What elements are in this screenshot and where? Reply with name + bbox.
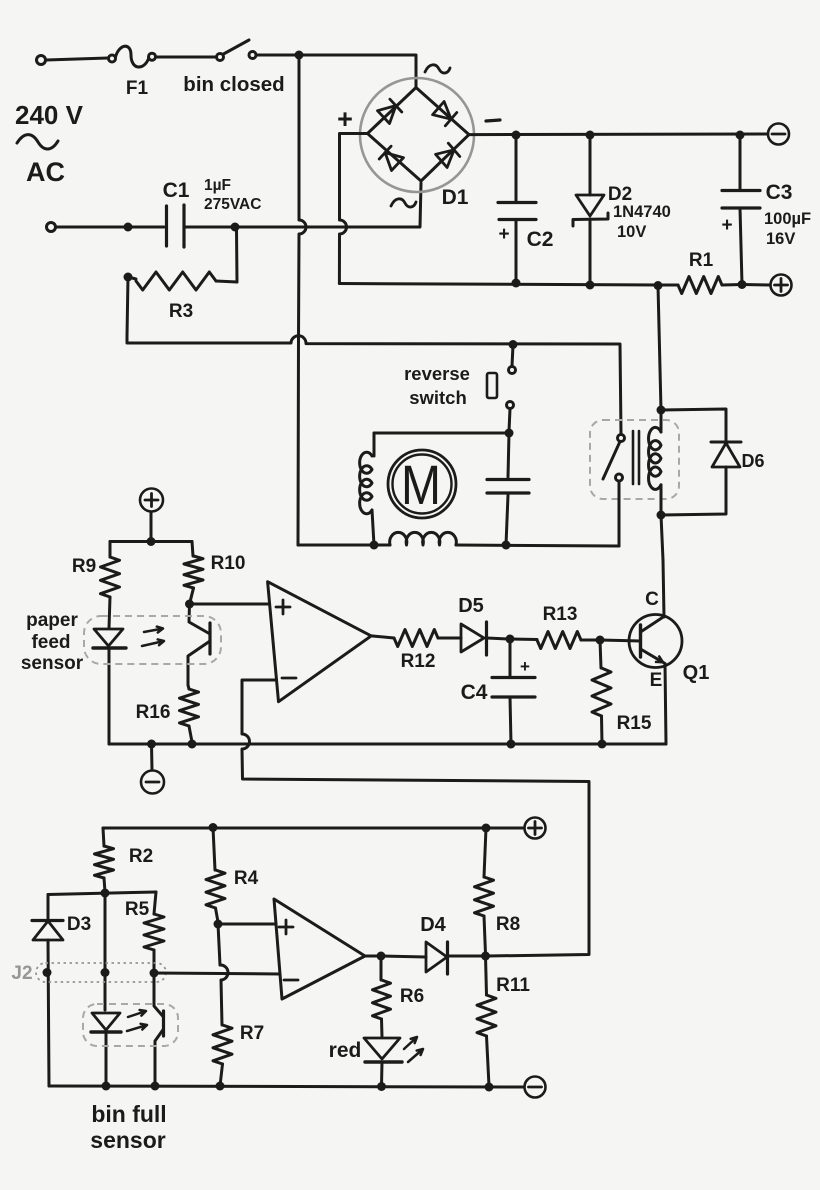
paper feed sensor label <box>21 610 84 674</box>
svg-text:R11: R11 <box>496 975 530 996</box>
svg-text:R4: R4 <box>234 868 259 889</box>
svg-text:R8: R8 <box>496 914 520 935</box>
svg-text:275VAC: 275VAC <box>204 196 261 213</box>
wire relay to Q1 collector <box>661 515 664 617</box>
node top rail D2 <box>586 131 595 140</box>
C2 + label <box>498 224 509 245</box>
AC neutral input terminal <box>47 223 127 232</box>
node C3 bottom <box>738 280 747 289</box>
resistor R10 <box>184 542 203 603</box>
svg-text:C1: C1 <box>163 179 190 202</box>
node J2 pin1 <box>43 968 52 977</box>
relay K1 box <box>590 420 679 499</box>
R5 label <box>125 899 150 920</box>
wire left branch down to motor rail <box>127 277 621 434</box>
C1 label <box>163 179 190 202</box>
node relay coil bottom <box>657 511 666 520</box>
bin full sensor label <box>90 1101 166 1153</box>
node bottom rail relay <box>654 281 663 290</box>
optocoupler U2 LED <box>93 629 126 744</box>
capacitor C3 <box>722 135 760 284</box>
terminal - bin sensor <box>525 1077 546 1098</box>
wire opamp1 output <box>371 636 394 638</box>
wire Q1 emitter to rail <box>665 664 666 744</box>
svg-text:R16: R16 <box>136 702 171 723</box>
node phototransistor collector <box>185 600 194 609</box>
node J2 pin2 <box>101 968 110 977</box>
capacitor C2 <box>498 135 536 283</box>
node reverse switch top <box>509 340 518 349</box>
svg-text:switch: switch <box>409 387 467 408</box>
svg-text:reverse: reverse <box>404 363 470 384</box>
bridge - label <box>486 120 500 121</box>
node motor top rail x reverse switch <box>505 429 514 438</box>
resistor R6 <box>373 956 391 1037</box>
D2 label <box>608 184 671 241</box>
R6 label <box>400 986 424 1007</box>
wire R1 to + terminal <box>742 283 770 287</box>
op-amp U1 <box>268 582 372 702</box>
D3 label <box>67 914 91 935</box>
wire motor bottom rail right <box>456 545 619 546</box>
bridge diode top-right <box>433 102 457 126</box>
bridge diamond wires <box>368 88 470 182</box>
transistor Q1 <box>600 615 682 668</box>
svg-text:R5: R5 <box>125 899 150 920</box>
LED red <box>364 1038 402 1086</box>
switch bin closed <box>217 40 257 61</box>
C2 label <box>527 228 554 251</box>
R13 label <box>543 604 578 625</box>
fuse F1 <box>109 46 156 99</box>
C1 value label <box>204 177 261 213</box>
wire relay coil feed <box>658 286 661 411</box>
terminal + bin sensor <box>525 818 546 839</box>
reverse switch label <box>404 363 470 408</box>
node top rail C3 <box>736 131 745 140</box>
node motor rail bottom right <box>502 541 511 550</box>
relay contact <box>603 435 625 547</box>
svg-text:100µF: 100µF <box>764 210 811 228</box>
motor winding left <box>360 433 374 545</box>
svg-text:bin full: bin full <box>91 1101 166 1127</box>
R16 label <box>136 702 171 723</box>
bridge ~ bottom <box>391 199 416 207</box>
svg-text:+: + <box>721 215 732 236</box>
node J2 pin3 <box>150 969 159 978</box>
svg-text:240 V: 240 V <box>15 100 84 130</box>
svg-text:F1: F1 <box>126 78 149 99</box>
node rail R15 <box>598 740 607 749</box>
relay coil <box>649 410 661 515</box>
svg-text:D3: D3 <box>67 914 91 935</box>
wire motor top rail <box>374 432 509 435</box>
svg-text:R6: R6 <box>400 986 424 1007</box>
D6 label <box>741 451 764 471</box>
diode D6 <box>661 409 741 515</box>
optocoupler U2 box <box>84 616 221 664</box>
svg-text:16V: 16V <box>766 230 795 248</box>
svg-text:R7: R7 <box>240 1023 264 1044</box>
node supply upper <box>147 537 156 546</box>
R9 label <box>72 556 96 577</box>
wire R2 node rail <box>48 892 156 895</box>
svg-text:C4: C4 <box>461 681 488 704</box>
svg-text:sensor: sensor <box>21 653 84 674</box>
resistor R13 <box>510 632 598 649</box>
svg-text:D1: D1 <box>442 186 469 209</box>
bridge ~ top <box>425 65 450 73</box>
node D4 cathode <box>481 952 490 961</box>
C3 + label <box>721 215 732 236</box>
node rail R4 <box>209 823 218 832</box>
svg-text:R9: R9 <box>72 556 96 577</box>
wire bridge + corner to bottom rail <box>339 134 367 284</box>
optocoupler U2 arrows <box>142 627 164 646</box>
svg-text:D2: D2 <box>608 184 632 205</box>
bridge rectifier D1 circle <box>360 78 474 192</box>
R12 label <box>401 651 436 672</box>
svg-text:E: E <box>650 670 663 691</box>
diode D5 <box>438 622 508 655</box>
svg-text:D6: D6 <box>741 451 764 471</box>
node junction top <box>295 51 304 60</box>
wire + rail bottom section <box>103 827 524 830</box>
C4 + label <box>520 657 530 676</box>
D1 label <box>442 186 469 209</box>
optocoupler U3 arrows <box>127 1010 147 1031</box>
svg-text:1N4740: 1N4740 <box>613 203 671 221</box>
motor run capacitor <box>487 433 529 545</box>
wire + term down <box>150 512 153 539</box>
svg-text:C3: C3 <box>766 181 793 204</box>
R7 label <box>240 1023 264 1044</box>
bridge diode bottom-right <box>436 143 460 167</box>
svg-text:R3: R3 <box>169 301 193 322</box>
svg-text:R10: R10 <box>211 553 246 574</box>
node rail R16 <box>188 740 197 749</box>
node grail photo <box>151 1082 160 1091</box>
D4 label <box>420 914 446 936</box>
resistor R7 <box>213 1025 232 1086</box>
svg-text:R1: R1 <box>689 250 714 271</box>
node C1 left <box>124 223 133 232</box>
wire switch to bridge top <box>256 55 416 88</box>
bin closed label <box>183 73 284 96</box>
svg-text:R13: R13 <box>543 604 578 625</box>
resistor R15 <box>592 640 611 744</box>
wire ground rail bottom <box>49 1086 524 1087</box>
svg-text:R15: R15 <box>617 713 652 734</box>
zener diode D3 <box>32 895 63 1087</box>
wire J2 to opamp2 - input <box>154 973 280 974</box>
bridge + label <box>337 104 353 134</box>
node C1 right <box>231 223 240 232</box>
wire motor bottom rail <box>298 544 390 547</box>
node relay coil top <box>657 406 666 415</box>
svg-text:red: red <box>329 1039 362 1062</box>
node R2 bottom <box>101 889 110 898</box>
resistor R1 <box>659 277 742 294</box>
R2 label <box>129 846 153 867</box>
wire opamp1 - input feedback <box>242 680 589 956</box>
Q1 labels <box>645 589 709 691</box>
optocoupler U2 phototransistor <box>188 604 210 685</box>
capacitor C4 <box>492 639 535 744</box>
motor winding bottom <box>390 532 457 545</box>
resistor R2 <box>95 828 114 892</box>
svg-text:D4: D4 <box>420 914 446 936</box>
wire opamp2 + input <box>218 923 276 926</box>
C4 label <box>461 681 488 704</box>
bridge diode bottom-left <box>379 146 403 170</box>
bridge diode top-left <box>378 99 402 123</box>
node motor rail bottom left <box>370 541 379 550</box>
wire top - rail <box>469 133 767 137</box>
resistor R4 <box>206 828 225 923</box>
R15 label <box>617 713 652 734</box>
terminal - paper sensor <box>141 744 164 794</box>
wire bottom + rail <box>339 284 659 286</box>
svg-text:R12: R12 <box>401 651 436 672</box>
wire mid branch <box>104 893 107 1010</box>
optocoupler U3 box <box>83 1004 178 1046</box>
svg-text:1µF: 1µF <box>204 177 231 194</box>
wire supply rail upper <box>110 540 192 543</box>
op-amp U4 <box>274 899 365 999</box>
resistor R5 <box>144 892 164 971</box>
zener diode D2 <box>573 135 608 226</box>
svg-text:feed: feed <box>31 632 70 653</box>
svg-text:+: + <box>520 657 530 676</box>
wire D2 to rail <box>589 219 592 285</box>
wire C1 to bridge bottom <box>237 183 421 227</box>
AC live input terminal <box>37 56 109 65</box>
node opamp2 output <box>377 952 386 961</box>
svg-text:AC: AC <box>26 157 65 187</box>
resistor R8 <box>475 828 494 954</box>
diode D4 <box>381 942 484 974</box>
optocoupler U3 phototransistor <box>154 973 164 1086</box>
node grail red LED <box>377 1082 386 1091</box>
node R4 bottom <box>214 920 223 929</box>
motor M1 <box>388 450 456 518</box>
node bottom rail D2 <box>586 281 595 290</box>
optocoupler U3 LED <box>91 1013 121 1086</box>
node grail R11 <box>485 1083 494 1092</box>
wire opamp1 + input <box>190 603 269 606</box>
red label <box>329 1039 362 1062</box>
svg-text:bin closed: bin closed <box>183 73 284 96</box>
R8 label <box>496 914 520 935</box>
svg-text:+: + <box>337 104 353 134</box>
svg-text:M: M <box>401 453 441 516</box>
R3 label <box>169 301 193 322</box>
svg-text:sensor: sensor <box>90 1127 165 1153</box>
svg-text:J2: J2 <box>11 963 32 984</box>
node rail - terminal <box>147 740 156 749</box>
svg-text:Q1: Q1 <box>683 662 710 684</box>
svg-text:10V: 10V <box>617 223 646 241</box>
LED red arrows <box>404 1037 423 1062</box>
resistor R9 <box>101 542 120 629</box>
connector J2 <box>11 963 166 984</box>
D5 label <box>458 595 484 617</box>
node Q1 base wire <box>596 636 605 645</box>
wire opamp2 output <box>365 955 381 958</box>
R10 label <box>211 553 246 574</box>
R1 label <box>689 250 714 271</box>
node R3 tap <box>124 273 133 282</box>
terminal + bottom right <box>771 275 792 296</box>
node rail C4 <box>507 740 516 749</box>
svg-text:paper: paper <box>26 610 78 631</box>
terminal - top right <box>768 124 789 145</box>
capacitor C1 <box>128 205 233 247</box>
node top rail C2 <box>512 131 521 140</box>
resistor R3 <box>128 229 237 290</box>
node grail LED <box>102 1082 111 1091</box>
wire R4 to R7 (hops J2 wire) <box>218 924 228 1025</box>
wire vertical from bin-closed node (hops y227) <box>298 55 306 545</box>
svg-text:C: C <box>645 589 659 610</box>
wire fuse to switch <box>156 56 216 59</box>
reverse switch <box>487 345 516 431</box>
terminal + paper sensor <box>140 489 163 512</box>
resistor R11 <box>477 956 496 1086</box>
240V AC source label <box>15 100 84 187</box>
R11 label <box>496 975 530 996</box>
relay core <box>633 431 639 484</box>
node bottom rail C2 <box>512 279 521 288</box>
resistor R16 <box>180 685 199 742</box>
svg-text:C2: C2 <box>527 228 554 251</box>
svg-text:+: + <box>498 224 509 245</box>
svg-text:D5: D5 <box>458 595 484 617</box>
node D5 cathode <box>506 635 515 644</box>
C3 label <box>764 181 811 248</box>
wire ground rail upper <box>109 743 666 746</box>
node rail R8 <box>482 824 491 833</box>
node grail R7 <box>216 1082 225 1091</box>
svg-text:R2: R2 <box>129 846 153 867</box>
R4 label <box>234 868 259 889</box>
resistor R12 <box>394 630 438 647</box>
